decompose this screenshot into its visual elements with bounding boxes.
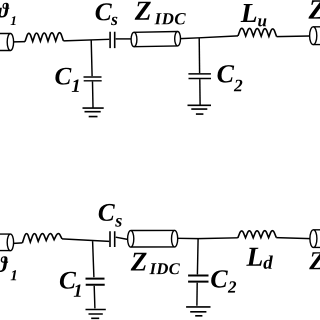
transmission line TL1 (input port, top row) — [0, 34, 14, 51]
wire — [277, 35, 310, 38]
label Z (top right, clipped) — [309, 0, 320, 18]
wire — [116, 237, 128, 239]
label Z (bottom right, clipped) — [309, 252, 320, 269]
wire — [14, 41, 25, 43]
label θ1 (bottom) — [0, 256, 8, 272]
resistor (top source zigzag) — [25, 33, 63, 42]
capacitor Cs (top series) — [110, 32, 115, 48]
wire — [116, 38, 131, 40]
label C1 (bottom) — [60, 272, 76, 289]
capacitor C1 (top shunt) — [84, 40, 102, 108]
ground (bottom C1) — [86, 310, 106, 319]
wire — [14, 242, 23, 245]
transmission line Z_IDC (bottom) — [128, 230, 178, 247]
ground (top C2) — [188, 105, 212, 114]
label Ld (bottom) — [246, 248, 262, 266]
label Z_IDC (top) — [135, 2, 151, 20]
label Lu (top) — [241, 4, 257, 22]
capacitor Cs (bottom series) — [110, 231, 115, 247]
wire to node B (top C2 junction) — [181, 36, 239, 39]
transmission line TL4 (output port Z, bottom row) — [310, 230, 320, 248]
label C1 (top) — [55, 68, 71, 85]
label Cs (top) — [96, 3, 112, 20]
label Cs (bottom) — [99, 204, 115, 221]
label θ1 (top) — [0, 3, 9, 18]
capacitor C2 (bottom shunt) — [188, 239, 208, 306]
label C2 (bottom) — [211, 270, 228, 288]
resistor (bottom source zigzag) — [22, 234, 62, 243]
capacitor C2 (top shunt) — [188, 38, 211, 105]
wire to node C (bottom C1 junction) — [62, 239, 109, 242]
ground (top C1) — [83, 108, 104, 117]
wire to node D (bottom C2 junction) — [178, 237, 238, 240]
wire to node A (top C1 junction) — [63, 39, 109, 41]
transmission line TL2 (output port Z, top row) — [310, 27, 320, 45]
inductor Ld (bottom) — [238, 231, 276, 238]
transmission line Z_IDC (top) — [131, 32, 180, 47]
wire — [276, 238, 310, 239]
ground (bottom C2) — [186, 307, 210, 316]
label C2 (top) — [218, 65, 235, 83]
inductor Lu (top) — [238, 28, 277, 36]
transmission line TL3 (input port, bottom row) — [0, 234, 14, 251]
capacitor C1 (bottom shunt) — [86, 241, 105, 308]
label Z_IDC (bottom) — [131, 253, 147, 271]
